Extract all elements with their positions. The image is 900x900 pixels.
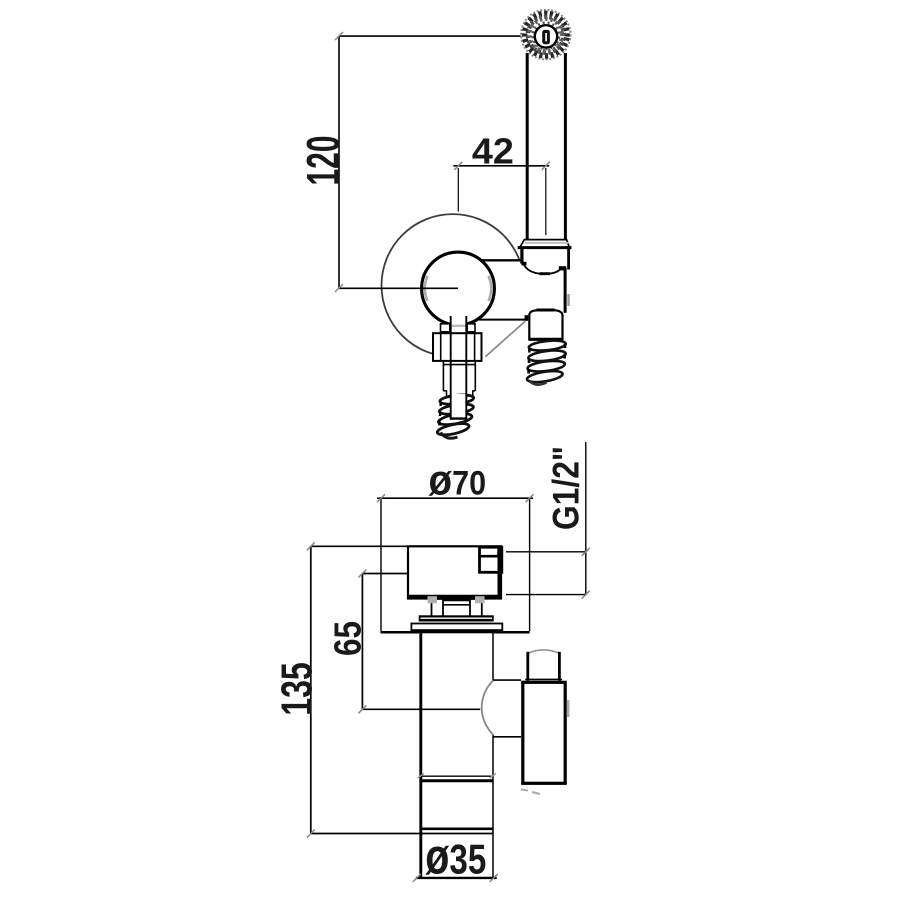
dimension 42 <box>453 165 549 167</box>
arm bottom line <box>479 319 526 321</box>
arm top line <box>481 259 521 261</box>
tube right edge <box>465 316 467 418</box>
tube shoulder left <box>441 324 450 332</box>
sleeve left edge <box>442 361 444 391</box>
handle left edge <box>526 53 529 240</box>
holder bottom link line <box>493 736 521 738</box>
svg-text:120: 120 <box>297 136 349 186</box>
valve body <box>408 546 501 598</box>
svg-text:ø70: ø70 <box>429 457 487 505</box>
ball arc ghost across tube <box>451 325 467 327</box>
elbow white fill <box>481 316 526 357</box>
holder body right edge <box>564 268 567 313</box>
svg-text:G1/2": G1/2" <box>546 446 587 530</box>
bracket arm white fill <box>478 260 564 319</box>
collar inner verticals <box>440 333 442 361</box>
pipe right edge lower <box>492 735 494 878</box>
hose nut under holder <box>529 310 562 339</box>
valve stem feet <box>432 599 444 616</box>
handle shaft fill <box>527 50 566 240</box>
cup top edge <box>518 246 572 249</box>
cup left edge <box>520 248 523 263</box>
tube shoulder right <box>467 324 475 332</box>
hose coil bottom <box>436 394 474 439</box>
sleeve step <box>443 391 475 397</box>
escutcheon stack white bar <box>411 624 502 631</box>
tube repaint over coil <box>451 394 466 418</box>
drop tube white fill <box>450 316 467 418</box>
pipe joint line thick <box>420 779 494 782</box>
svg-text:ø35: ø35 <box>425 829 486 885</box>
collar step line <box>443 364 475 366</box>
pipe left edge <box>419 633 422 879</box>
holder body side view <box>523 682 565 783</box>
dimension 135 <box>311 546 493 833</box>
tube left edge <box>450 316 452 418</box>
handle right edge <box>564 53 567 240</box>
holder knob <box>528 649 560 680</box>
cup white fill <box>520 240 571 320</box>
cup right edge <box>567 247 570 270</box>
sleeve right edge <box>474 361 476 391</box>
svg-text:65: 65 <box>327 621 369 656</box>
svg-text:42: 42 <box>472 131 514 172</box>
ball inner shading right <box>489 276 492 301</box>
dimension 120 <box>339 36 521 288</box>
shower head <box>521 10 571 60</box>
wall escutcheon circle <box>382 214 525 357</box>
dimension 65 <box>362 574 480 710</box>
wall plate line <box>381 631 530 634</box>
handle end bulge arc <box>482 680 494 734</box>
pipe joint line thin <box>420 775 493 777</box>
cup saddle curve <box>524 264 562 274</box>
handle cap ring <box>520 240 570 248</box>
tube bottom cap <box>450 417 467 419</box>
down pipe fill <box>420 633 494 829</box>
holder top link line <box>493 679 521 681</box>
G1/2 nipple <box>480 547 502 572</box>
collar nut <box>433 333 482 361</box>
svg-text:135: 135 <box>273 662 322 716</box>
hose coil right <box>526 339 566 385</box>
dimension o35 <box>416 877 497 879</box>
elbow diagonal edge <box>485 321 525 357</box>
escutcheon stack dark bar <box>419 615 494 621</box>
wall ball joint <box>422 252 495 325</box>
dimension o70 <box>377 497 533 499</box>
pipe bottom cap <box>420 827 494 830</box>
ball inner shading left <box>425 276 428 301</box>
pipe right edge upper <box>492 633 494 680</box>
dimension 65 extension over pipe <box>419 708 480 710</box>
dimension G1/2 <box>585 442 587 595</box>
